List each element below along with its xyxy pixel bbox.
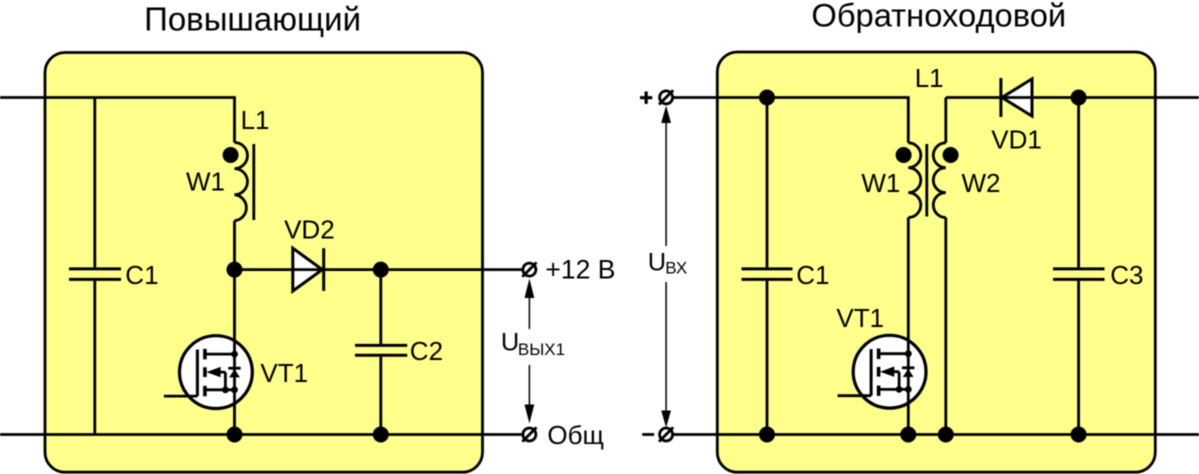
svg-text:L1: L1 (241, 105, 270, 135)
svg-text:VD1: VD1 (991, 124, 1042, 154)
svg-text:VT1: VT1 (260, 358, 308, 388)
svg-text:W2: W2 (962, 168, 1001, 198)
svg-text:+12 В: +12 В (545, 255, 615, 285)
svg-text:VD2: VD2 (284, 215, 335, 245)
svg-text:W1: W1 (186, 167, 225, 197)
svg-text:C2: C2 (410, 336, 443, 366)
svg-text:U: U (501, 329, 519, 357)
svg-text:L1: L1 (915, 63, 944, 93)
svg-text:C3: C3 (1110, 260, 1143, 290)
svg-text:Повышающий: Повышающий (144, 0, 361, 37)
svg-text:U: U (648, 249, 666, 277)
svg-text:ВХ: ВХ (665, 259, 687, 278)
svg-text:ВЫХ1: ВЫХ1 (518, 340, 565, 359)
svg-text:Общ: Общ (547, 420, 604, 450)
svg-text:VT1: VT1 (836, 303, 884, 333)
svg-text:Обратноходовой: Обратноходовой (811, 0, 1066, 33)
svg-text:W1: W1 (861, 168, 900, 198)
svg-text:C1: C1 (796, 260, 829, 290)
svg-text:C1: C1 (125, 260, 158, 290)
